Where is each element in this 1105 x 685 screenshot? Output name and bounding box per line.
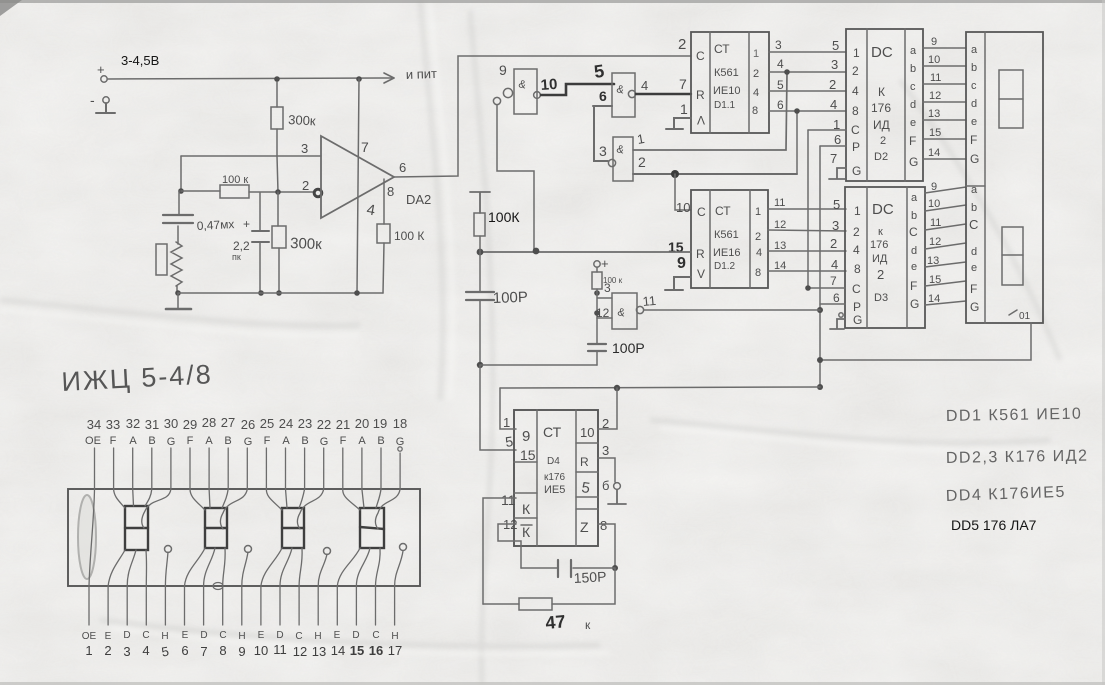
capacitor C2 2,2 xyxy=(232,193,269,293)
svg-text:Е: Е xyxy=(105,631,112,642)
svg-text:G: G xyxy=(910,297,919,311)
svg-text:23: 23 xyxy=(298,416,312,431)
svg-text:9: 9 xyxy=(499,62,507,78)
svg-text:8: 8 xyxy=(600,518,607,533)
svg-text:1: 1 xyxy=(854,204,861,218)
svg-text:Е: Е xyxy=(258,630,265,641)
svg-text:176: 176 xyxy=(871,101,891,115)
svg-text:F: F xyxy=(970,133,977,147)
svg-text:1: 1 xyxy=(755,206,761,218)
svg-text:11: 11 xyxy=(501,492,516,508)
gate DD5.1 output bubble xyxy=(534,92,541,99)
svg-text:3-4,5В: 3-4,5В xyxy=(121,53,159,68)
bottom pin numbers row xyxy=(85,642,402,660)
gate DD5.2 output bubble xyxy=(628,90,635,97)
junction gate in2 xyxy=(594,310,600,316)
wire DD4 R out to test point xyxy=(598,458,615,482)
svg-text:25: 25 xyxy=(260,416,274,431)
wire pin10 loop xyxy=(598,388,617,429)
svg-text:С: С xyxy=(372,630,379,641)
colon dot 2 xyxy=(245,546,252,553)
svg-text:a: a xyxy=(911,192,918,204)
svg-text:47: 47 xyxy=(545,611,567,633)
resistor R5 100K xyxy=(474,209,520,252)
svg-text:3: 3 xyxy=(775,38,782,52)
svg-text:A: A xyxy=(205,435,213,447)
svg-text:2: 2 xyxy=(880,135,886,147)
plus terminal xyxy=(594,256,609,271)
svg-text:ИЕ5: ИЕ5 xyxy=(544,484,565,496)
svg-text:e: e xyxy=(971,262,977,274)
svg-text:2: 2 xyxy=(829,77,836,92)
svg-text:C: C xyxy=(909,225,918,239)
svg-text:б: б xyxy=(602,478,609,493)
svg-text:2: 2 xyxy=(830,236,837,251)
svg-text:27: 27 xyxy=(221,415,235,430)
wire DD2 out F xyxy=(923,127,966,139)
wire DD2 out d xyxy=(923,90,966,102)
svg-text:Н: Н xyxy=(238,631,245,642)
svg-text:A: A xyxy=(358,435,366,447)
svg-text:К: К xyxy=(522,501,531,517)
svg-text:28: 28 xyxy=(202,415,216,430)
svg-text:7: 7 xyxy=(361,139,369,155)
svg-text:24: 24 xyxy=(279,416,293,431)
svg-text:F: F xyxy=(340,435,347,447)
svg-text:С: С xyxy=(219,630,226,641)
svg-text:ИД: ИД xyxy=(873,118,890,132)
wire DD1.1 V to ground xyxy=(666,118,691,129)
svg-text:150Р: 150Р xyxy=(573,568,606,586)
wire DD3 out b xyxy=(925,198,966,211)
svg-text:Е: Е xyxy=(334,630,341,641)
svg-text:1: 1 xyxy=(503,415,510,430)
wire DD3 out d xyxy=(925,236,966,249)
svg-text:8: 8 xyxy=(752,105,758,117)
wire DD1.2 out4 to DD3 xyxy=(768,236,846,252)
svg-text:+: + xyxy=(601,256,609,271)
svg-text:32: 32 xyxy=(126,416,140,431)
junction R row gate input xyxy=(533,248,540,255)
svg-text:20: 20 xyxy=(355,416,369,431)
svg-text:4: 4 xyxy=(753,87,759,99)
svg-text:3: 3 xyxy=(602,443,609,458)
svg-text:12: 12 xyxy=(929,90,941,102)
wire DD1.1 out2 to DD2 xyxy=(769,57,846,72)
svg-text:01: 01 xyxy=(1019,311,1031,322)
svg-text:F: F xyxy=(264,435,271,447)
wire display common bottom xyxy=(820,323,1031,360)
battery G1 minus terminal xyxy=(90,92,109,108)
wire DD2 out b xyxy=(923,54,966,66)
wire DD4 C loop to clock net xyxy=(500,388,516,429)
svg-text:СТ: СТ xyxy=(714,42,730,56)
svg-text:D1.2: D1.2 xyxy=(714,261,736,272)
svg-text:DC: DC xyxy=(871,44,893,61)
svg-text:F: F xyxy=(909,134,916,148)
top pin leads xyxy=(95,447,403,489)
wire pin7-pin4 vertical xyxy=(357,79,376,293)
svg-text:2: 2 xyxy=(852,64,859,78)
svg-text:12: 12 xyxy=(929,236,941,248)
svg-text:ИЕ16: ИЕ16 xyxy=(713,247,740,259)
svg-text:6: 6 xyxy=(599,88,607,104)
svg-text:DD1 К561 ИЕ10: DD1 К561 ИЕ10 xyxy=(946,406,1083,425)
wire DD1.1 out8 to DD2 xyxy=(769,97,846,112)
svg-text:1: 1 xyxy=(680,101,688,117)
colon dot 3 xyxy=(324,548,331,555)
top pin numbers row xyxy=(87,415,407,432)
junction pin4/bottom rail xyxy=(354,290,360,296)
capacitor C5 150P xyxy=(521,560,615,586)
svg-text:СТ: СТ xyxy=(543,424,562,440)
svg-text:D: D xyxy=(123,630,130,641)
svg-text:4: 4 xyxy=(641,78,648,93)
svg-text:7: 7 xyxy=(200,644,207,659)
svg-text:100Р: 100Р xyxy=(612,340,645,356)
wire DD3 P stub xyxy=(820,291,845,305)
svg-text:ОЕ: ОЕ xyxy=(82,631,97,642)
svg-text:К561: К561 xyxy=(714,67,739,79)
wire DD2 out a xyxy=(923,36,966,48)
svg-text:ОЕ: ОЕ xyxy=(85,435,101,447)
gate DD5.2 pin5 xyxy=(593,61,635,117)
svg-text:8: 8 xyxy=(854,262,861,276)
svg-text:C: C xyxy=(969,217,978,232)
svg-text:1: 1 xyxy=(753,48,759,60)
wire left column xyxy=(180,156,182,191)
svg-text:15: 15 xyxy=(350,643,364,658)
svg-text:и пит: и пит xyxy=(406,66,438,82)
svg-text:DC: DC xyxy=(872,201,894,218)
wire C5 to R7 loop xyxy=(552,568,615,604)
wire DD1.2 out1 to DD3 xyxy=(768,197,846,212)
svg-text:15: 15 xyxy=(929,274,941,286)
svg-text:Н: Н xyxy=(314,631,321,642)
svg-text:100 К: 100 К xyxy=(394,229,424,243)
svg-text:16: 16 xyxy=(369,643,383,658)
test point terminal xyxy=(608,483,626,504)
svg-text:8: 8 xyxy=(852,104,859,118)
svg-text:G: G xyxy=(970,300,979,314)
svg-text:1: 1 xyxy=(853,46,860,60)
svg-text:F: F xyxy=(970,282,977,296)
junction clock/pin10 xyxy=(614,385,620,391)
svg-text:10: 10 xyxy=(928,54,940,66)
svg-text:d: d xyxy=(971,98,977,110)
svg-text:d: d xyxy=(910,99,916,111)
svg-text:2: 2 xyxy=(853,225,860,239)
svg-text:V: V xyxy=(697,113,705,127)
inner segment wires group1 xyxy=(89,489,171,586)
svg-text:A: A xyxy=(282,435,290,447)
wire R1 to node2 xyxy=(277,156,278,192)
wire +supply rail with arrow xyxy=(108,73,394,83)
wire DD1.2 V to ground xyxy=(665,277,691,290)
wire DD3 out F xyxy=(925,274,966,286)
svg-text:e: e xyxy=(911,261,917,273)
svg-text:2: 2 xyxy=(104,643,111,658)
resistor R2 100k xyxy=(181,174,314,198)
junction node2/R3 xyxy=(275,189,281,195)
svg-text:10: 10 xyxy=(580,425,594,440)
svg-text:100Р: 100Р xyxy=(493,289,529,307)
svg-text:d: d xyxy=(911,245,917,257)
svg-text:Н: Н xyxy=(161,631,168,642)
svg-text:4: 4 xyxy=(852,84,859,98)
gate DD5.1 input terminal xyxy=(493,88,512,104)
gate DD5.4 output bubble xyxy=(636,306,643,313)
LCD display block xyxy=(966,32,1043,323)
wire DD5.4 out to V2 xyxy=(642,293,820,310)
svg-text:33: 33 xyxy=(106,417,120,432)
svg-text:2: 2 xyxy=(753,68,759,80)
wire R row from R5 to DD1.2 xyxy=(480,251,691,253)
svg-text:6: 6 xyxy=(833,291,840,305)
battery G1 plus terminal xyxy=(97,62,107,82)
svg-text:19: 19 xyxy=(373,416,387,431)
wire DD3 out c xyxy=(925,217,966,230)
junction R3/bottom rail xyxy=(276,290,282,296)
svg-text:1: 1 xyxy=(833,117,840,132)
svg-text:D: D xyxy=(200,630,207,641)
capacitor C4 100P xyxy=(588,318,645,365)
wire R5 column to DD4 R xyxy=(480,365,516,450)
junction crystal/bottom rail xyxy=(175,290,181,296)
svg-text:к: к xyxy=(878,226,883,238)
digit D2 glyph xyxy=(205,508,227,548)
svg-text:14: 14 xyxy=(331,643,345,658)
inner segment wires group4 xyxy=(337,489,403,586)
svg-text:29: 29 xyxy=(183,417,197,432)
svg-text:11: 11 xyxy=(930,72,941,84)
svg-text:9: 9 xyxy=(522,428,530,445)
svg-text:+: + xyxy=(97,62,105,77)
wire DD2 C input xyxy=(808,117,846,132)
svg-text:15: 15 xyxy=(929,127,941,139)
crystal ZQ1 xyxy=(156,242,182,293)
svg-text:пк: пк xyxy=(232,252,241,262)
svg-text:DA2: DA2 xyxy=(406,192,431,207)
svg-text:4: 4 xyxy=(853,243,860,257)
svg-text:4: 4 xyxy=(142,643,149,658)
junction out8/riser xyxy=(794,108,800,114)
svg-text:2: 2 xyxy=(755,231,761,243)
gate DD5.3 input bubble xyxy=(608,159,615,166)
wire pin6 input tie to DD5.3 xyxy=(593,106,612,161)
wire clock net row xyxy=(500,387,820,388)
svg-text:176: 176 xyxy=(870,239,888,251)
svg-text:C: C xyxy=(696,49,705,63)
wire DD3 out a xyxy=(925,181,966,193)
svg-text:30: 30 xyxy=(164,416,178,431)
wire DD5.2 out to DD1.1 R (bold) xyxy=(636,76,691,94)
svg-text:D: D xyxy=(276,630,283,641)
svg-text:9: 9 xyxy=(677,255,686,272)
inner segment wires group2 xyxy=(185,489,249,586)
svg-text:G: G xyxy=(970,152,979,166)
svg-text:D: D xyxy=(352,630,359,641)
svg-text:14: 14 xyxy=(928,293,940,305)
svg-text:R: R xyxy=(696,88,705,102)
svg-text:300к: 300к xyxy=(288,112,316,128)
svg-text:Е: Е xyxy=(182,630,189,641)
ground bottom-left xyxy=(166,293,191,309)
svg-text:22: 22 xyxy=(317,417,331,432)
junction C2/bottom rail xyxy=(258,290,264,296)
colon dot 4 xyxy=(400,544,407,551)
svg-text:d: d xyxy=(971,246,977,258)
counter DD4 K176IE5 xyxy=(514,410,598,546)
decoder DD3 K176ID2 xyxy=(845,187,925,328)
svg-text:C: C xyxy=(852,282,861,296)
wire DD3 C input riser from DD2 C xyxy=(808,130,845,288)
junction node B xyxy=(671,170,679,178)
svg-text:P: P xyxy=(853,300,861,314)
svg-text:b: b xyxy=(910,63,916,75)
resistor R4 100K xyxy=(377,179,424,293)
svg-text:9: 9 xyxy=(931,181,937,193)
svg-text:10: 10 xyxy=(540,76,558,94)
svg-text:300к: 300к xyxy=(290,235,323,253)
resistor R6 100k small xyxy=(592,267,623,289)
wire gate inputs xyxy=(596,281,612,320)
svg-text:2,2: 2,2 xyxy=(233,239,250,253)
LCD connector body xyxy=(68,489,420,590)
svg-text:С: С xyxy=(295,631,302,642)
svg-text:B: B xyxy=(301,435,308,447)
svg-text:5: 5 xyxy=(832,38,839,53)
svg-text:4: 4 xyxy=(831,257,838,272)
wire pin6 riser to DD1.1 out8 xyxy=(796,111,798,174)
wire DD2 P input xyxy=(820,132,846,147)
svg-text:b: b xyxy=(971,62,977,74)
svg-text:100К: 100К xyxy=(488,209,520,225)
gate DD5.3 pin3 xyxy=(599,137,633,181)
svg-text:5: 5 xyxy=(777,78,784,92)
wire DD5.3 out 2 row xyxy=(633,154,797,174)
resistor R7 47k xyxy=(483,598,591,633)
wire bottom rail xyxy=(178,292,383,294)
svg-text:B: B xyxy=(224,435,231,447)
svg-text:2: 2 xyxy=(678,36,686,53)
svg-text:G: G xyxy=(853,313,862,327)
svg-text:2: 2 xyxy=(877,267,884,282)
svg-text:C: C xyxy=(697,205,706,219)
counter DD1.2 K561IE16 xyxy=(691,190,768,288)
svg-text:R: R xyxy=(580,455,589,469)
svg-text:14: 14 xyxy=(928,147,940,159)
svg-text:4: 4 xyxy=(777,57,784,71)
svg-text:26: 26 xyxy=(241,417,255,432)
svg-text:10: 10 xyxy=(254,643,268,658)
svg-text:a: a xyxy=(971,44,978,56)
svg-text:A: A xyxy=(129,435,137,447)
svg-text:8: 8 xyxy=(755,267,761,279)
wire node B to DD1.2 C xyxy=(675,174,691,210)
svg-text:R: R xyxy=(696,247,705,261)
svg-text:9: 9 xyxy=(238,644,245,659)
svg-text:G: G xyxy=(167,436,176,448)
wire DD5.3 out 1 feedback xyxy=(633,73,787,150)
gate DD5.1 pin9 xyxy=(499,62,537,114)
svg-text:b: b xyxy=(971,202,977,214)
wire DD2 out e xyxy=(923,108,966,120)
wire DD3 out e xyxy=(925,255,966,267)
junction Z/C5 xyxy=(612,565,618,571)
wire K1 inverse loop xyxy=(498,524,521,568)
svg-text:к: к xyxy=(585,618,591,632)
resistor R3 300k xyxy=(272,192,322,293)
svg-text:3: 3 xyxy=(832,218,839,233)
svg-text:7: 7 xyxy=(679,76,687,92)
svg-text:4: 4 xyxy=(756,247,762,259)
svg-text:9: 9 xyxy=(931,36,937,48)
svg-text:13: 13 xyxy=(927,255,939,267)
wire DD3 G to ground xyxy=(830,313,845,329)
display digit glyph upper xyxy=(999,70,1023,128)
junction out2/feedback xyxy=(784,69,790,75)
svg-text:2: 2 xyxy=(638,154,646,170)
svg-text:F: F xyxy=(910,279,917,293)
svg-text:3: 3 xyxy=(831,57,838,72)
svg-text:к176: к176 xyxy=(544,472,565,483)
svg-text:31: 31 xyxy=(145,417,159,432)
junction R6 gate in1 xyxy=(594,290,600,296)
junction supply/pin7 xyxy=(356,76,362,82)
svg-text:К: К xyxy=(522,524,531,540)
digit D1 glyph xyxy=(125,506,148,550)
svg-text:G: G xyxy=(909,155,918,169)
svg-text:21: 21 xyxy=(336,417,350,432)
svg-text:10: 10 xyxy=(928,198,940,210)
resistor R1 300K xyxy=(271,82,316,156)
svg-text:18: 18 xyxy=(393,416,407,431)
svg-text:14: 14 xyxy=(774,260,786,272)
counter DD1.1 K561IE10 xyxy=(691,32,769,133)
wire DD2 out G xyxy=(923,147,966,159)
svg-text:34: 34 xyxy=(87,417,101,432)
digit D4 glyph xyxy=(360,508,384,548)
wire input row pin3 xyxy=(181,141,321,156)
svg-text:7: 7 xyxy=(830,274,837,288)
wire DD1.1 out1 to DD2 xyxy=(769,38,846,53)
svg-text:V: V xyxy=(697,267,705,281)
junction V2 bottom xyxy=(817,384,823,390)
inner segment wires group3 xyxy=(261,489,327,586)
junction R row left xyxy=(477,249,484,256)
svg-text:3: 3 xyxy=(301,141,308,156)
svg-text:6: 6 xyxy=(777,98,784,112)
svg-text:С: С xyxy=(142,630,149,641)
svg-text:11: 11 xyxy=(930,217,941,229)
svg-text:8: 8 xyxy=(219,643,226,658)
wire DD1.2 out2 to DD3 xyxy=(768,218,846,233)
svg-text:G: G xyxy=(244,436,253,448)
op-amp DA2 xyxy=(321,136,431,218)
svg-text:12: 12 xyxy=(774,219,786,231)
svg-text:5: 5 xyxy=(833,197,840,212)
svg-text:17: 17 xyxy=(388,643,402,658)
display digit glyph lower xyxy=(1002,227,1023,285)
svg-text:P: P xyxy=(852,140,860,154)
svg-text:Н: Н xyxy=(391,631,398,642)
svg-text:F: F xyxy=(187,435,194,447)
svg-text:6: 6 xyxy=(181,643,188,658)
svg-text:11: 11 xyxy=(774,197,785,209)
svg-text:ИЕ10: ИЕ10 xyxy=(713,85,740,97)
svg-text:G: G xyxy=(852,164,861,178)
